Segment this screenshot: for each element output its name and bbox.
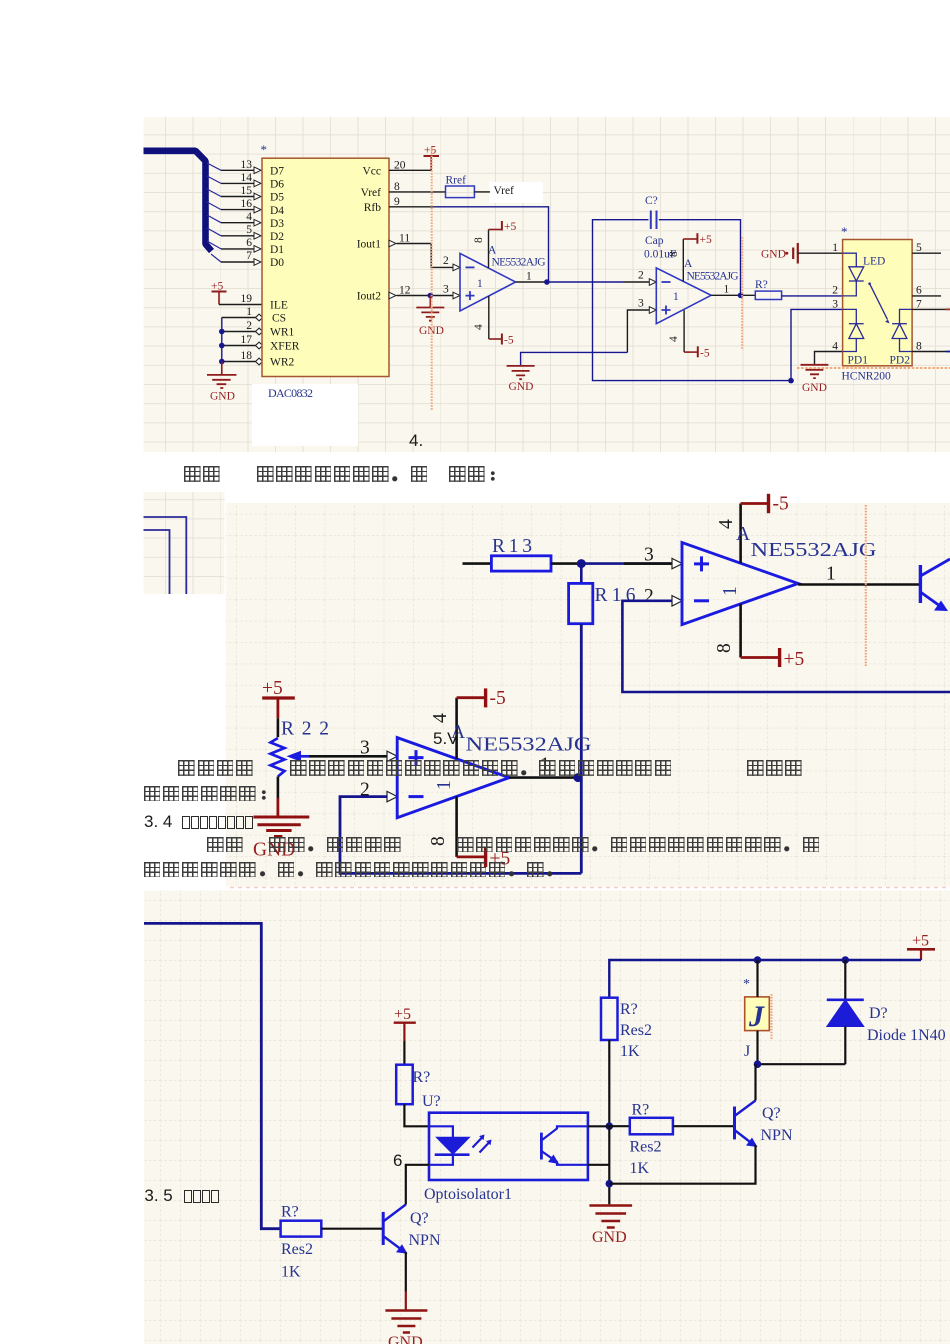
caption 4. xyxy=(409,431,423,451)
wire D1 xyxy=(221,248,254,250)
GND at Iout2 xyxy=(416,296,444,338)
svg-text:8: 8 xyxy=(714,643,735,653)
GND at HCNR pin4 xyxy=(801,365,829,394)
wire WR1 xyxy=(222,331,256,333)
svg-text:18: 18 xyxy=(241,350,253,362)
wire ILE xyxy=(219,304,262,306)
op-amp U1A output wire xyxy=(516,281,547,283)
base resistor R? Res2 1K (right Q) xyxy=(609,1125,630,1127)
svg-text:ILE: ILE xyxy=(270,300,288,312)
svg-text:NPN: NPN xyxy=(409,1232,441,1249)
wire pin3 vertical xyxy=(791,309,843,380)
svg-text:3: 3 xyxy=(360,738,370,759)
svg-text:1K: 1K xyxy=(630,1160,650,1177)
svg-text:NE5532AJG: NE5532AJG xyxy=(492,257,546,269)
svg-text:2: 2 xyxy=(644,586,654,607)
svg-text:R?: R? xyxy=(620,1001,638,1018)
wire D5 xyxy=(221,196,254,198)
node feedback/pin3 HCNR xyxy=(788,378,794,384)
svg-text:*: * xyxy=(743,977,750,992)
wire Vcc pin20 xyxy=(389,169,431,171)
wire pin7 xyxy=(912,308,945,310)
svg-text:R22: R22 xyxy=(281,719,329,740)
+5 power for ILE xyxy=(211,281,227,305)
potentiometer R22 zigzag xyxy=(271,738,285,777)
text line: 其中 变换部分的电路，图 如下： xyxy=(184,466,507,482)
op-amp A1 input arrows xyxy=(672,558,682,568)
GND mid (U1B pin3 reference) xyxy=(507,310,649,393)
svg-text:4: 4 xyxy=(430,713,451,723)
op-amp A2 output wire xyxy=(509,776,581,779)
svg-text:GND: GND xyxy=(210,391,235,403)
node opto collector xyxy=(606,1122,614,1130)
svg-text:HCNR200: HCNR200 xyxy=(842,371,891,383)
wire R? down xyxy=(608,1040,610,1126)
transistor at right edge xyxy=(919,565,922,603)
svg-text:+5: +5 xyxy=(424,145,436,157)
svg-text:6: 6 xyxy=(916,285,922,297)
svg-text:Iout1: Iout1 xyxy=(357,239,382,251)
GND under opto xyxy=(608,1203,610,1206)
node rail/diode xyxy=(842,956,850,964)
photodiode PD2 xyxy=(900,309,913,323)
DAC0832 chip body U xyxy=(262,158,389,376)
orange highlight line 2 xyxy=(741,237,743,350)
svg-text:3: 3 xyxy=(638,298,644,310)
svg-text:*: * xyxy=(841,224,848,239)
transistor Q? NPN (left) xyxy=(382,1212,385,1245)
op-amp U2A triangle xyxy=(656,268,711,324)
svg-text:-5: -5 xyxy=(773,494,789,515)
relay pin top xyxy=(756,960,758,997)
svg-text:11: 11 xyxy=(399,233,410,245)
svg-text:1: 1 xyxy=(826,564,836,585)
wire opto collector out xyxy=(588,1125,609,1127)
svg-text:15: 15 xyxy=(241,185,253,197)
light arrow LED to PD2 xyxy=(870,284,888,320)
op-amp A1 output wire xyxy=(798,583,920,586)
+5 power above R22 xyxy=(262,696,295,699)
svg-text:1: 1 xyxy=(477,278,483,290)
data bus xyxy=(144,151,212,251)
node collector/relay/diode xyxy=(754,1060,762,1068)
control pin numbers xyxy=(241,293,253,362)
svg-text:Vcc: Vcc xyxy=(362,166,381,178)
svg-text:20: 20 xyxy=(394,160,406,172)
bus branch D4 xyxy=(207,202,221,210)
wire D3 xyxy=(221,222,254,224)
op-amp A1 pin2 feedback wire xyxy=(622,601,950,692)
capacitor C? plates xyxy=(651,211,657,230)
op-amp U2A pin4 -5 xyxy=(683,310,685,352)
orange wavy at relay xyxy=(771,994,773,1039)
bus branch D2 xyxy=(207,228,221,236)
svg-text:XFER: XFER xyxy=(270,341,300,353)
svg-text:DAC0832: DAC0832 xyxy=(268,386,313,400)
svg-text:D1: D1 xyxy=(270,244,284,256)
relay pin bottom xyxy=(756,1031,758,1065)
bus branch D3 xyxy=(207,215,221,223)
resistor R? Res2 1K (left) xyxy=(281,1221,322,1237)
bus branch D6 xyxy=(207,176,221,183)
wire wiper to pin3 xyxy=(309,755,387,758)
svg-text:D?: D? xyxy=(869,1005,888,1022)
resistor R13 xyxy=(491,556,551,571)
node A2 output xyxy=(574,773,583,782)
wire CS xyxy=(222,317,256,319)
bus branch D1 xyxy=(207,241,221,249)
opto phototransistor xyxy=(540,1133,543,1160)
svg-text:R?: R? xyxy=(413,1069,431,1086)
svg-text:WR2: WR2 xyxy=(270,357,295,369)
Q emitter down and return xyxy=(609,1145,755,1184)
op-amp U2A input arrows xyxy=(649,279,656,286)
svg-text:-5: -5 xyxy=(504,335,514,347)
resistor R? to HCNR pin2 xyxy=(755,291,781,299)
node emitter return xyxy=(606,1180,614,1188)
feedback wire Rfb to opamp output xyxy=(433,207,549,282)
svg-text:4: 4 xyxy=(246,211,252,223)
pin arrows D7-D0 xyxy=(254,167,261,265)
op-amp A2 triangle xyxy=(397,738,509,818)
svg-text:Res2: Res2 xyxy=(281,1241,313,1258)
svg-text:R?: R? xyxy=(755,279,768,291)
svg-text:8: 8 xyxy=(473,237,485,243)
svg-text:-5: -5 xyxy=(700,348,710,360)
stray 6 xyxy=(393,1151,402,1171)
svg-text:8: 8 xyxy=(668,251,680,257)
svg-text:6: 6 xyxy=(246,237,252,249)
photodiode PD1 xyxy=(843,309,857,323)
transistor Q? NPN (right) xyxy=(733,1107,736,1140)
resistor R16 xyxy=(580,564,583,584)
svg-text:19: 19 xyxy=(241,293,253,305)
svg-text:WR1: WR1 xyxy=(270,327,295,339)
svg-text:Res2: Res2 xyxy=(630,1139,662,1156)
svg-text:A: A xyxy=(684,258,693,270)
svg-text:Rfb: Rfb xyxy=(364,202,382,214)
R16 long vertical to output node xyxy=(580,624,583,874)
op-amp U1A triangle xyxy=(460,253,516,311)
wire pin4 to GND xyxy=(815,352,843,365)
svg-text:NE5532AJG: NE5532AJG xyxy=(751,540,877,561)
svg-text:D2: D2 xyxy=(270,231,284,243)
text line 4: 如图 所示，将输出的 脉冲经光耦隔离，三极管的驱动放大后，控 xyxy=(207,836,822,852)
svg-text:R?: R? xyxy=(632,1102,650,1119)
diode D? xyxy=(844,960,846,1000)
wire Rref to Vref label xyxy=(474,191,490,193)
svg-text:5: 5 xyxy=(246,224,252,236)
node Iout2/GND junction xyxy=(428,293,434,299)
wire Iout1 pin11 xyxy=(397,244,454,268)
svg-text:GND: GND xyxy=(592,1229,627,1246)
op-amp A2 input arrows xyxy=(387,751,397,761)
text line 2: 流的表达式为： xyxy=(144,785,278,801)
svg-text:17: 17 xyxy=(241,334,253,346)
text line 5: 制继电器的开、关，进而控制功能电路的开、关。 xyxy=(144,861,566,877)
op-amp U2A pin8 +5 xyxy=(682,239,684,281)
chip right pin names xyxy=(357,166,382,303)
opto light arrows xyxy=(473,1138,483,1148)
op-amp U1A pin4 -5 xyxy=(488,296,490,339)
svg-text:NPN: NPN xyxy=(761,1127,793,1144)
svg-text:J: J xyxy=(744,1043,750,1060)
HCNR pin numbers left xyxy=(832,242,838,353)
svg-text:3: 3 xyxy=(644,545,654,566)
control net vertical xyxy=(221,318,223,362)
svg-text:+5: +5 xyxy=(700,234,712,246)
svg-text:5: 5 xyxy=(916,242,922,254)
wire U1A out to U1B in xyxy=(547,281,623,283)
wire D6 xyxy=(221,182,254,184)
wire D2 xyxy=(221,235,254,237)
schematic panel 1 background xyxy=(144,117,950,452)
svg-text:Diode 1N40: Diode 1N40 xyxy=(867,1027,946,1044)
+5 power top right xyxy=(907,948,935,951)
Q emitter to GND xyxy=(405,1252,407,1292)
svg-text:12: 12 xyxy=(399,285,411,297)
wire to R? xyxy=(403,1041,405,1065)
bus branch D7 xyxy=(207,163,221,170)
op-amp U1A input arrows xyxy=(453,264,460,271)
wire D4 xyxy=(221,209,254,211)
svg-text:Vref: Vref xyxy=(361,187,382,199)
orange highlight line 3 xyxy=(865,505,867,666)
bus branch D0 xyxy=(211,254,221,262)
op-amp A2 pin8 +5 xyxy=(455,797,458,857)
white label patch under DAC0832 xyxy=(252,384,358,446)
opto LED xyxy=(429,1126,453,1137)
svg-text:4: 4 xyxy=(832,341,838,353)
wire pin6 xyxy=(912,295,941,297)
svg-text:D4: D4 xyxy=(270,205,284,217)
svg-text:GND: GND xyxy=(761,249,786,261)
svg-text:+5: +5 xyxy=(784,649,805,670)
op-amp A1 pin8 +5 xyxy=(739,604,742,658)
svg-text:2: 2 xyxy=(832,285,838,297)
wire to R22 xyxy=(277,718,280,737)
svg-text:LED: LED xyxy=(863,256,885,268)
wire D7 xyxy=(221,169,254,171)
svg-text:R16: R16 xyxy=(595,585,636,606)
svg-text:GND: GND xyxy=(388,1334,423,1344)
svg-text:C?: C? xyxy=(645,195,658,207)
text line 1: 通过设置 阻值及调整滑动变阻器阻值，可使输出电流为 输出电 xyxy=(178,760,804,776)
relay J yellow box xyxy=(745,997,770,1031)
svg-text:4: 4 xyxy=(668,336,680,342)
node rail/relay xyxy=(754,956,762,964)
node U1A output xyxy=(544,279,550,285)
wire Rfb pin9 xyxy=(389,206,433,208)
R22 to GND xyxy=(277,777,280,799)
resistor Rref xyxy=(446,186,475,198)
wire R? to pin2 xyxy=(782,295,843,297)
svg-text:U?: U? xyxy=(422,1093,441,1110)
+5 rail xyxy=(609,960,921,998)
schematic panel 3 background xyxy=(144,891,950,1344)
svg-text:PD1: PD1 xyxy=(848,355,869,367)
op-amp A2 pin2 feedback xyxy=(340,797,581,874)
svg-text:1: 1 xyxy=(434,780,455,790)
svg-text:3: 3 xyxy=(832,299,838,311)
svg-text:J: J xyxy=(748,1000,765,1033)
LED inside HCNR200 xyxy=(843,253,857,267)
wire into R13 xyxy=(463,562,492,565)
wire pin8 xyxy=(912,351,946,353)
svg-text:NE5532AJG: NE5532AJG xyxy=(466,735,592,756)
white label patch behind Vref xyxy=(489,182,543,203)
svg-text:9: 9 xyxy=(394,196,400,208)
svg-text:4: 4 xyxy=(473,324,485,330)
svg-text:1: 1 xyxy=(720,586,741,596)
R22 wiper arrow xyxy=(299,755,309,758)
bus branch D5 xyxy=(207,189,221,197)
svg-text:1: 1 xyxy=(526,271,532,283)
svg-text:Vref: Vref xyxy=(494,185,515,197)
svg-text:Iout2: Iout2 xyxy=(357,291,382,303)
svg-text:8: 8 xyxy=(916,341,922,353)
capacitor C? feedback loop wires xyxy=(593,220,791,381)
optoisolator U? box xyxy=(429,1113,588,1180)
svg-text:D6: D6 xyxy=(270,179,284,191)
wire Iout2 pin12 xyxy=(397,295,454,297)
op-amp U2A output xyxy=(711,294,755,296)
HCNR200 optocoupler body xyxy=(843,240,913,366)
svg-text:3: 3 xyxy=(443,284,449,296)
svg-text:D3: D3 xyxy=(270,218,284,230)
svg-text:Optoisolator1: Optoisolator1 xyxy=(424,1186,512,1203)
orange wavy marker under HCNR200 xyxy=(797,367,950,369)
resistor R? Res2 1K (collector pull) xyxy=(601,998,618,1040)
+5 above opto input resistor xyxy=(394,1022,416,1024)
op-amp A2 pin4 -5 xyxy=(455,698,458,759)
wire XFER xyxy=(222,345,256,347)
svg-text:7: 7 xyxy=(246,250,252,262)
wire to Q base xyxy=(673,1125,735,1127)
svg-text:A: A xyxy=(488,245,497,257)
wire R13 to node xyxy=(551,562,581,565)
svg-text:1: 1 xyxy=(832,242,838,254)
GND bar symbol at HCNR pin1 xyxy=(761,243,843,264)
svg-text:2: 2 xyxy=(246,320,252,332)
svg-text:2: 2 xyxy=(638,270,644,282)
svg-text:+5: +5 xyxy=(504,221,516,233)
svg-text:16: 16 xyxy=(241,198,253,210)
heading 3.4 with missing glyph boxes xyxy=(144,812,172,832)
wire down to gnd node xyxy=(608,1126,610,1204)
svg-text:1: 1 xyxy=(673,291,679,303)
svg-text:+5: +5 xyxy=(211,281,223,293)
wire diode to collector node xyxy=(758,1063,846,1065)
svg-text:D0: D0 xyxy=(270,257,284,269)
ground R22 xyxy=(253,817,309,837)
wire opto emitter out xyxy=(588,1164,609,1166)
svg-text:2: 2 xyxy=(443,255,449,267)
svg-text:GND: GND xyxy=(802,382,827,394)
wire R? to opto xyxy=(404,1104,429,1126)
schematic panel 2 left fragment background xyxy=(144,492,225,594)
svg-text:Q?: Q? xyxy=(410,1210,429,1227)
svg-text:*: * xyxy=(261,142,268,157)
svg-text:D7: D7 xyxy=(270,166,284,178)
svg-text:R?: R? xyxy=(281,1204,299,1221)
Q collector to opto pin xyxy=(406,1165,429,1205)
GND below control pins xyxy=(207,362,237,403)
svg-text:1K: 1K xyxy=(620,1043,640,1060)
wire Vref pin8 xyxy=(389,191,446,193)
svg-text:GND: GND xyxy=(509,381,534,393)
op-amp U1A pin8 +5 xyxy=(488,230,490,269)
+5 power at Vcc xyxy=(424,145,440,171)
svg-text:Res2: Res2 xyxy=(620,1022,652,1039)
svg-text:-5: -5 xyxy=(490,688,506,709)
svg-text:PD2: PD2 xyxy=(890,355,911,367)
svg-text:14: 14 xyxy=(241,172,253,184)
pin numbers data xyxy=(241,159,253,262)
svg-text:+5: +5 xyxy=(394,1006,411,1023)
Q collector up xyxy=(754,1064,756,1100)
resistor R? (LED feed) xyxy=(396,1065,413,1105)
active-low diamonds xyxy=(256,314,263,365)
node U2A output xyxy=(738,293,744,299)
wire R? to Q base xyxy=(321,1228,383,1230)
svg-text:+5: +5 xyxy=(912,933,929,950)
svg-text:1: 1 xyxy=(724,284,730,296)
junction dots control net xyxy=(219,329,225,335)
op-amp A1 triangle xyxy=(682,543,798,625)
orange highlight line 1 xyxy=(431,147,433,411)
wire WR2 xyxy=(222,361,256,363)
svg-text:Rref: Rref xyxy=(446,175,467,187)
op-amp A1 pin4 -5 xyxy=(739,504,742,564)
svg-text:13: 13 xyxy=(241,159,253,171)
pink dashed image border bottom xyxy=(230,887,948,889)
wire pin5 xyxy=(912,252,941,254)
schematic panel 2 background xyxy=(226,503,950,887)
node R13/R16 xyxy=(577,559,586,568)
svg-text:CS: CS xyxy=(272,313,286,325)
wire node to pin3 xyxy=(581,562,672,565)
svg-text:Cap: Cap xyxy=(645,235,664,247)
svg-text:NE5532AJG: NE5532AJG xyxy=(687,271,739,283)
svg-text:1: 1 xyxy=(246,306,252,318)
ground (left Q) xyxy=(385,1311,427,1333)
svg-text:D5: D5 xyxy=(270,192,284,204)
svg-text:R13: R13 xyxy=(492,536,532,557)
svg-text:4: 4 xyxy=(716,519,737,529)
incoming wire top left xyxy=(144,923,281,1228)
fragment A corner wires xyxy=(144,517,187,594)
svg-text:A: A xyxy=(736,524,750,545)
svg-text:8: 8 xyxy=(394,181,400,193)
svg-text:+5: +5 xyxy=(262,678,283,699)
caption 5.V xyxy=(433,729,459,749)
wire D0 xyxy=(221,261,254,263)
heading 3.5 with missing glyph boxes xyxy=(144,1186,172,1206)
svg-text:1K: 1K xyxy=(281,1264,301,1281)
svg-text:Q?: Q? xyxy=(762,1105,781,1122)
